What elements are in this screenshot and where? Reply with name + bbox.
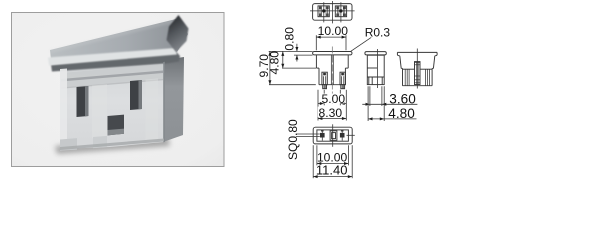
photo face top darker band [61,64,163,88]
dimension 5.00 [318,90,346,106]
photo rib highlight right [146,78,159,141]
photo roof right dark blade [167,15,189,52]
photo connector group [48,15,189,154]
svg-text:SQ0.80: SQ0.80 [286,119,300,160]
back view inner ribs [405,69,429,86]
back view center ladder [415,62,421,85]
svg-text:4.80: 4.80 [388,106,415,121]
svg-text:11.40: 11.40 [316,162,348,177]
bottom view left pin [320,130,325,140]
front view center post [331,55,333,85]
top view horizontal centerline [310,10,355,12]
front view body [316,55,348,85]
photo under-roof shadow band [51,52,180,72]
photo center square hole [108,115,125,136]
leader R0.3 [350,37,371,51]
dimension 11.40 [313,145,352,178]
photo right notch [130,80,142,110]
front view flange [313,52,352,55]
dimension 0.80 left [295,44,298,62]
photo roof bright lip [48,48,177,66]
back view centerline [416,49,418,89]
top view outline [313,4,352,21]
extension line flange bottom [294,54,313,56]
dimension 4.80 bottom [368,86,416,121]
dimension 9.70 [268,51,315,84]
extension line flange top left [269,50,313,52]
svg-text:0.80: 0.80 [282,27,296,51]
dimension 8.30 [318,90,346,121]
side view centerline [376,49,378,88]
svg-text:4.80: 4.80 [267,51,281,75]
text 5.00 with knockout [323,94,345,104]
bottom view centerlines [332,124,334,147]
bottom view pin top nubs [321,130,324,132]
photo rib highlight between notches [92,84,107,138]
dimension 10.00 bottom [317,145,349,165]
photo frame [12,13,225,167]
svg-text:10.00: 10.00 [318,24,349,38]
photo bottom feet shading [60,138,77,151]
dimension 10.00 top [316,35,346,50]
front view centerline [331,47,333,104]
text 8.30 with knockout [318,107,343,117]
photo side face boundary [163,62,165,142]
svg-text:5.00: 5.00 [322,92,346,106]
top view vertical centerline [331,1,333,23]
photo body front face [60,60,164,149]
side view internal lines [367,68,384,85]
photo front upper slot line [61,71,163,82]
svg-text:R0.3: R0.3 [365,25,391,39]
svg-text:8.30: 8.30 [319,106,343,120]
photo bottom edge line [60,139,164,151]
bottom view outline [313,127,352,144]
svg-text:3.60: 3.60 [389,92,416,107]
photo body right side face [163,57,184,142]
engineering drawing [268,1,437,178]
bottom view inner wall [317,130,349,141]
top view left cavity [318,2,329,22]
photo front face crease [61,79,163,89]
leader SQ0.80 [296,134,320,137]
dimension 3.60 [362,86,417,106]
dimension 4.80 left [281,52,316,69]
side view flange [365,52,386,55]
photo left edge highlight [60,69,67,150]
bottom view center boss [330,131,337,141]
side view body [367,55,384,84]
bottom view right pin [340,130,345,140]
top view right cavity [335,2,346,22]
photo shadow under body [55,137,170,154]
dimension texts [257,24,416,177]
back view outline [397,52,437,85]
photo left notch [77,86,89,117]
photo roof top face [50,19,188,60]
front view left contact [322,72,327,89]
photo roof top edge highlight [50,20,176,53]
front view right contact [340,72,345,89]
